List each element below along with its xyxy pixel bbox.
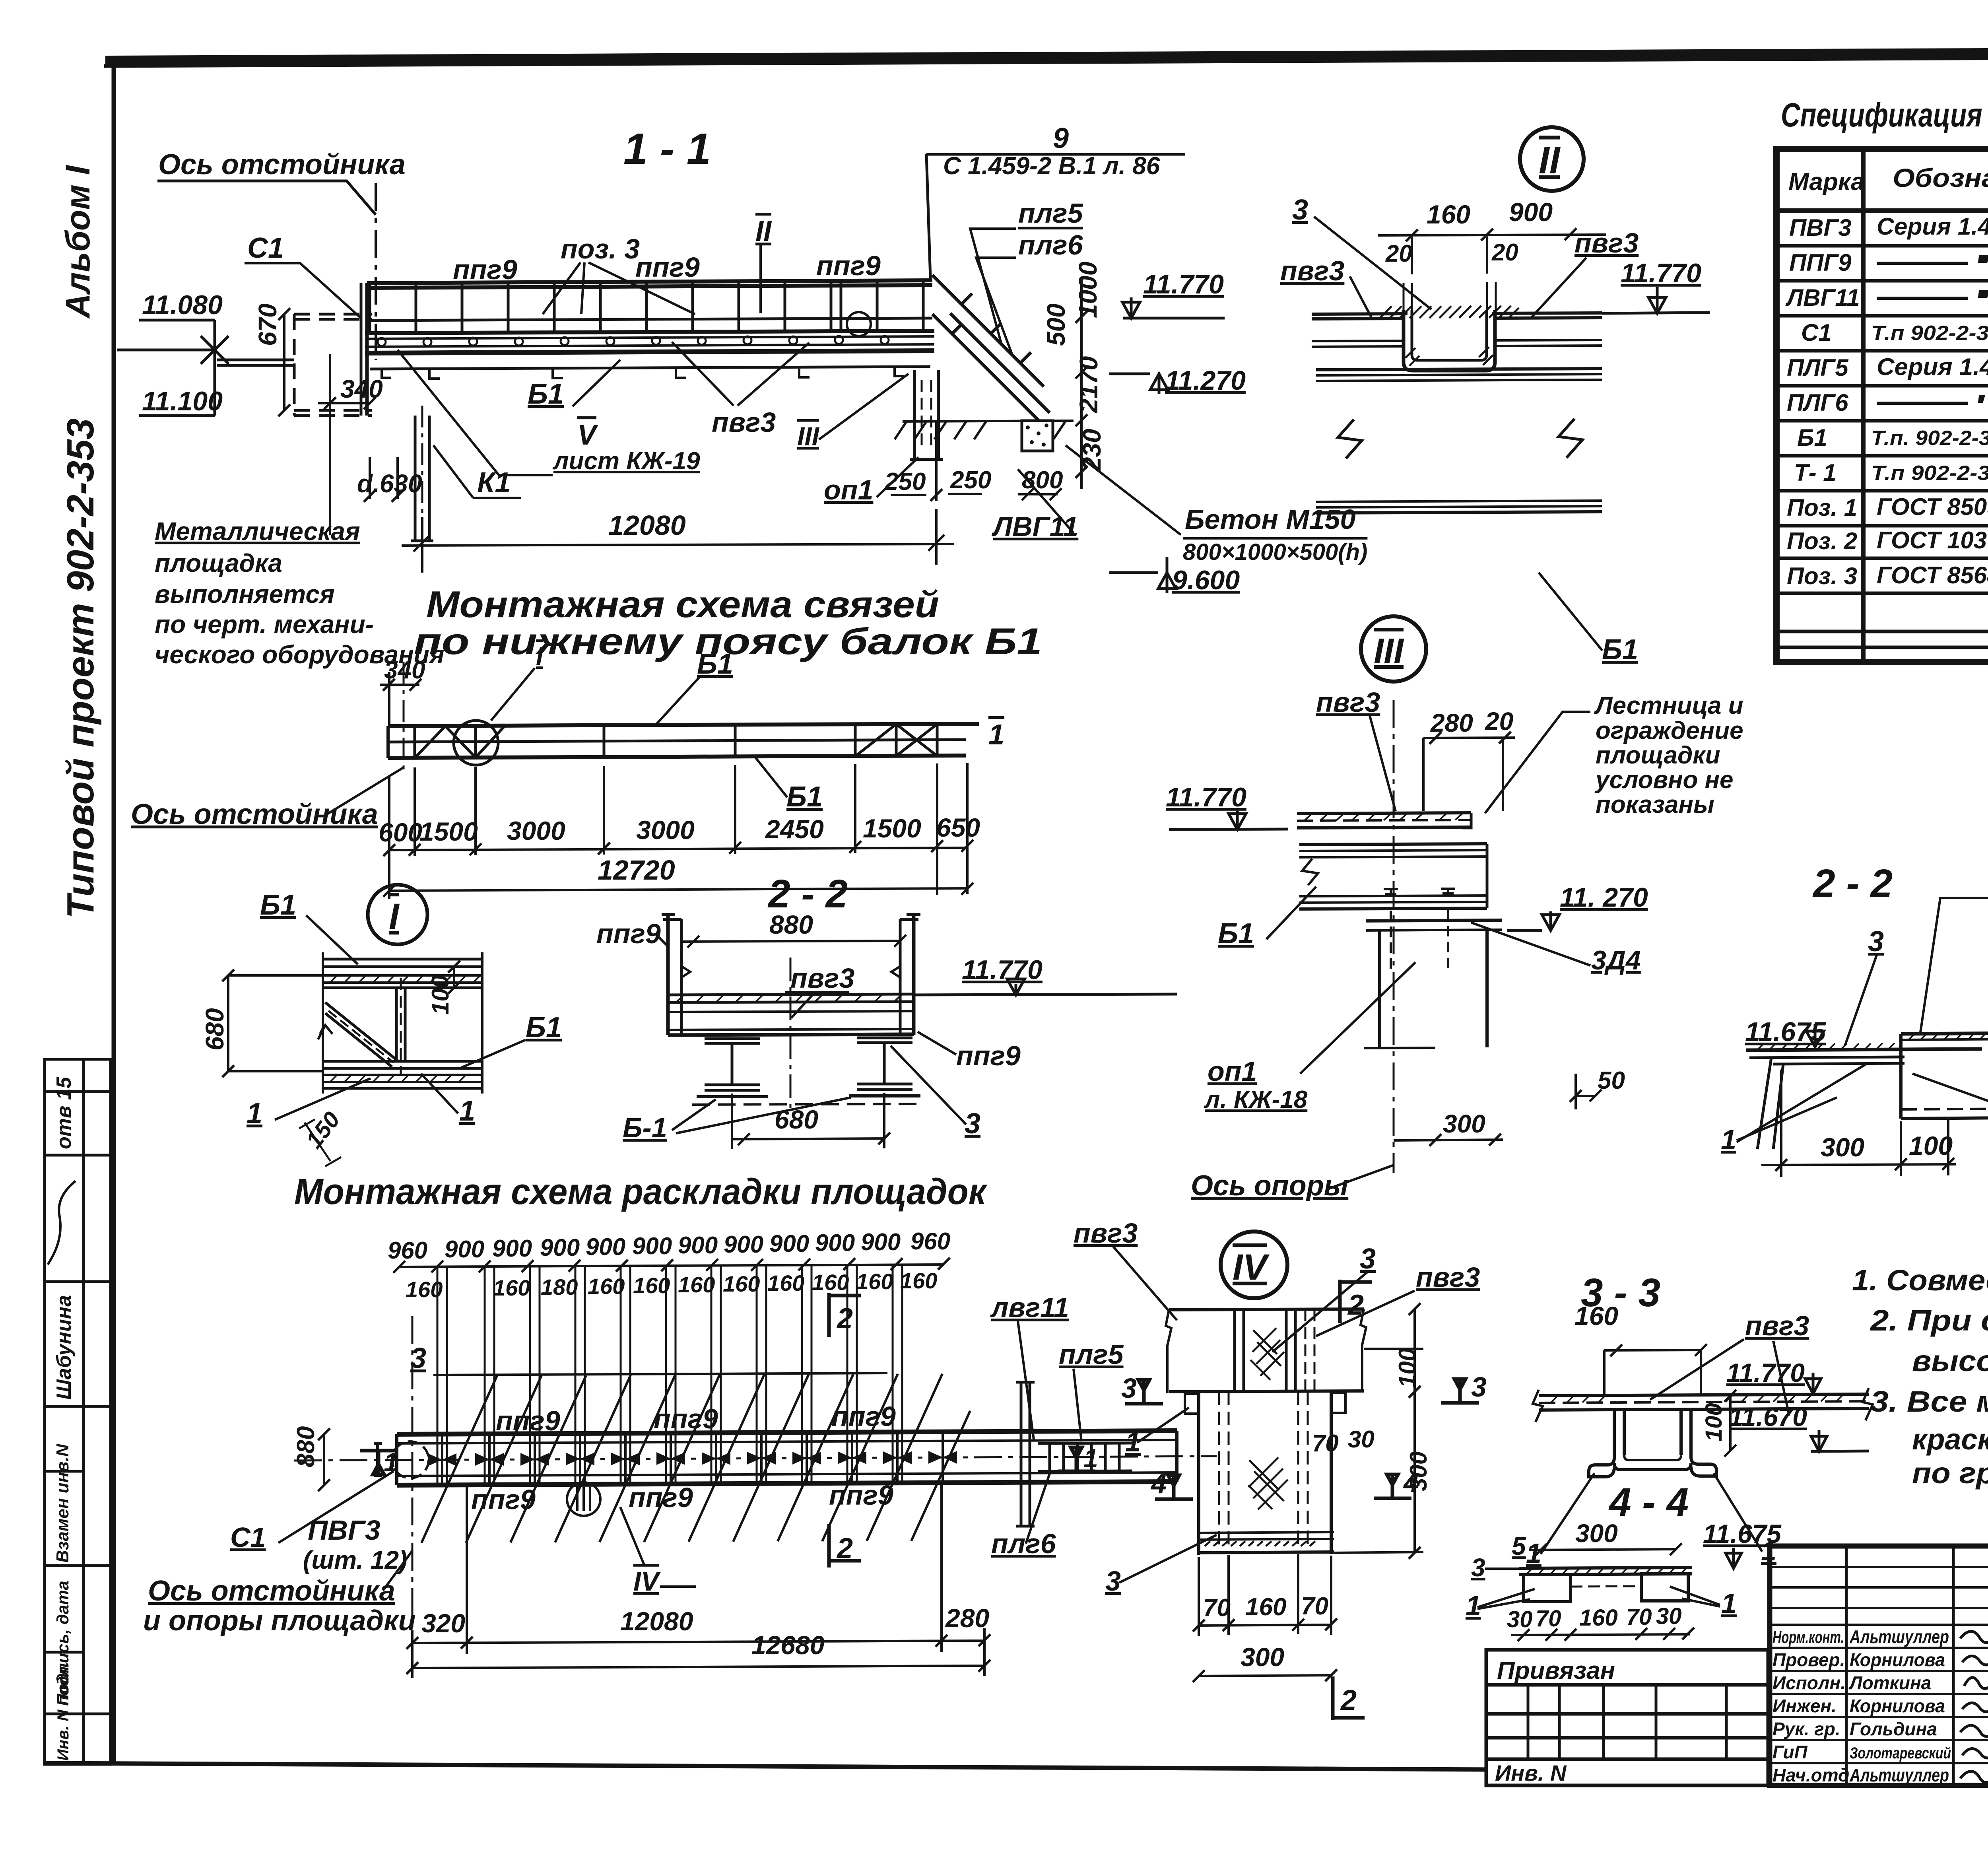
3 flags <box>1125 1380 1163 1404</box>
svg-text:11.080: 11.080 <box>142 290 223 320</box>
diagonal plate leaders <box>421 1374 970 1543</box>
svg-text:III: III <box>1374 631 1404 671</box>
svg-text:ппг9: ппг9 <box>956 1040 1021 1071</box>
left dashed metal platform <box>294 314 372 416</box>
svg-text:Типовой проект 902-2-353: Типовой проект 902-2-353 <box>59 418 102 919</box>
label rows <box>1770 1647 1988 1649</box>
svg-text:300: 300 <box>1575 1519 1618 1548</box>
svg-text:краской БТ-577 ( по ГОСТ 5631-: краской БТ-577 ( по ГОСТ 5631-79 ) за 2 … <box>1912 1423 1988 1456</box>
svg-text:900: 900 <box>861 1229 901 1255</box>
svg-text:пвг3: пвг3 <box>1074 1218 1138 1249</box>
160 row <box>406 1268 937 1302</box>
svg-text:К1: К1 <box>477 467 511 499</box>
svg-text:пвг3: пвг3 <box>1280 255 1344 286</box>
svg-text:Обозначение: Обозначение <box>1893 163 1988 192</box>
svg-text:Б1: Б1 <box>1797 424 1827 451</box>
svg-text:Норм.конт.: Норм.конт. <box>1773 1628 1844 1647</box>
svg-text:11.270: 11.270 <box>1165 365 1246 396</box>
svg-text:900: 900 <box>678 1232 718 1259</box>
svg-text:пвг3: пвг3 <box>1416 1262 1480 1293</box>
privyazan box <box>1486 1650 1768 1785</box>
svg-text:11.770: 11.770 <box>1621 258 1701 288</box>
left margin rotated captions <box>59 165 102 919</box>
svg-text:I: I <box>536 642 544 670</box>
svg-text:160: 160 <box>1574 1301 1618 1331</box>
braces right <box>855 724 896 756</box>
svg-text:пвг3: пвг3 <box>1574 227 1639 258</box>
svg-text:II: II <box>755 216 772 247</box>
svg-text:70: 70 <box>1203 1594 1231 1622</box>
svg-text:Ось отстойника: Ось отстойника <box>131 798 378 830</box>
svg-text:3000: 3000 <box>507 816 565 845</box>
svg-text:160: 160 <box>900 1268 937 1293</box>
svg-text:1. Совместно с данным см.: 1. Совместно с данным см. листы КЖ-18, 1… <box>1852 1264 1988 1297</box>
svg-text:Монтажная схема раскладки площ: Монтажная схема раскладки площадок <box>294 1171 988 1212</box>
svg-text:условно не: условно не <box>1594 766 1734 794</box>
deck band plan <box>1166 1309 1366 1393</box>
svg-text:V: V <box>577 419 599 451</box>
hat channel <box>1589 1409 1716 1477</box>
svg-text:3: 3 <box>1121 1373 1137 1404</box>
svg-text:650: 650 <box>936 813 980 842</box>
svg-text:Инжен.: Инжен. <box>1773 1696 1837 1716</box>
svg-text:160: 160 <box>723 1271 760 1296</box>
svg-text:3: 3 <box>1471 1553 1485 1582</box>
svg-text:12080: 12080 <box>608 510 686 541</box>
mid post + diagonal <box>395 988 398 1061</box>
svg-text:Альтшуллер: Альтшуллер <box>1849 1626 1949 1647</box>
svg-text:1: 1 <box>988 719 1004 751</box>
svg-text:9: 9 <box>1053 122 1069 154</box>
svg-text:ппг9: ппг9 <box>596 918 661 949</box>
svg-text:плг5: плг5 <box>1059 1339 1124 1370</box>
svg-text:900: 900 <box>445 1236 484 1263</box>
svg-text:ппг9: ппг9 <box>831 1401 896 1432</box>
hatch at joint <box>1380 306 1519 366</box>
top dim values <box>388 1228 950 1264</box>
svg-text:d.630: d.630 <box>357 469 422 498</box>
svg-text:пвг3: пвг3 <box>1316 687 1380 718</box>
svg-text:плг6: плг6 <box>1018 229 1083 260</box>
pedestal <box>1364 920 1502 1048</box>
channel walls <box>1404 310 1495 371</box>
svg-text:ЛВГ11: ЛВГ11 <box>1785 284 1860 311</box>
svg-text:Поз. 1: Поз. 1 <box>1787 494 1857 521</box>
svg-text:″: ″ <box>1978 253 1988 273</box>
svg-text:12080: 12080 <box>620 1606 693 1636</box>
band <box>397 1431 1177 1485</box>
svg-text:160: 160 <box>588 1274 625 1299</box>
svg-text:л. КЖ-18: л. КЖ-18 <box>1204 1086 1308 1113</box>
svg-text:Б1: Б1 <box>1602 634 1638 666</box>
svg-text:Привязан: Привязан <box>1497 1657 1615 1684</box>
svg-text:12680: 12680 <box>751 1630 825 1660</box>
svg-text:ГОСТ 8509 - 72*: ГОСТ 8509 - 72* <box>1877 493 1988 520</box>
right support column <box>910 370 943 459</box>
left column under platform edge <box>365 283 369 416</box>
svg-text:900: 900 <box>815 1230 855 1256</box>
svg-text:160: 160 <box>767 1270 804 1296</box>
svg-text:ПЛГ5: ПЛГ5 <box>1787 354 1849 381</box>
svg-text:Т- 1: Т- 1 <box>1794 459 1837 486</box>
svg-text:ппг9: ппг9 <box>654 1403 718 1434</box>
svg-text:ограждение: ограждение <box>1596 717 1743 744</box>
plate + clips <box>1519 1568 1692 1602</box>
svg-text:11.770: 11.770 <box>1166 782 1246 812</box>
svg-text:11.100: 11.100 <box>142 386 223 416</box>
svg-text:ппг9: ппг9 <box>816 250 881 281</box>
svg-text:ПЛГ6: ПЛГ6 <box>1787 389 1848 416</box>
svg-text:11. 270: 11. 270 <box>1560 882 1648 913</box>
deck band <box>365 331 934 333</box>
svg-text:пвг3: пвг3 <box>1745 1310 1809 1341</box>
beam <box>1299 844 1487 909</box>
svg-text:900: 900 <box>586 1233 625 1260</box>
svg-text:выполняется: выполняется <box>155 580 335 608</box>
svg-text:280: 280 <box>945 1603 989 1633</box>
box <box>1901 1033 1988 1119</box>
svg-text:Б1: Б1 <box>526 1012 562 1043</box>
svg-text:ППГ9: ППГ9 <box>1789 249 1852 276</box>
svg-text:показаны: показаны <box>1596 791 1714 818</box>
svg-text:ппг9: ппг9 <box>629 1482 693 1513</box>
svg-text:Т.п 902-2-353-КЖИ-Т1: Т.п 902-2-353-КЖИ-Т1 <box>1871 462 1988 485</box>
deck + channel <box>1312 310 1602 371</box>
svg-text:Монтажная схема связей: Монтажная схема связей <box>426 583 939 625</box>
svg-text:″: ″ <box>1978 287 1988 308</box>
svg-text:5: 5 <box>1512 1532 1526 1560</box>
outer boxes <box>1770 1546 1988 1785</box>
svg-text:Корнилова: Корнилова <box>1850 1696 1945 1716</box>
left stamp strip <box>45 1059 111 1764</box>
svg-text:плг6: плг6 <box>991 1528 1056 1559</box>
svg-text:Т.п 902-2-353-КЖИ-С1: Т.п 902-2-353-КЖИ-С1 <box>1871 322 1988 345</box>
svg-text:Инв. N подл.: Инв. N подл. <box>54 1662 72 1761</box>
svg-text:Рук. гр.: Рук. гр. <box>1773 1719 1840 1739</box>
crosshatch patch top <box>1250 1328 1284 1380</box>
svg-text:250: 250 <box>884 468 926 495</box>
svg-text:С1: С1 <box>247 232 284 264</box>
note text <box>1594 692 1743 818</box>
deck <box>1533 1388 1873 1422</box>
I beams below <box>697 1038 920 1097</box>
svg-text:300: 300 <box>1241 1642 1284 1672</box>
centerline <box>790 958 792 1111</box>
svg-text:II: II <box>1539 139 1561 182</box>
svg-text:11.770: 11.770 <box>1143 269 1224 299</box>
metal platform note <box>155 517 445 669</box>
svg-text:оп1: оп1 <box>1208 1056 1257 1087</box>
svg-text:70: 70 <box>1312 1430 1339 1457</box>
svg-text:4 - 4: 4 - 4 <box>1608 1480 1689 1525</box>
svg-text:70: 70 <box>1301 1593 1328 1620</box>
svg-text:670: 670 <box>253 303 282 346</box>
svg-text:1: 1 <box>1721 1124 1736 1155</box>
svg-text:900: 900 <box>1509 197 1553 227</box>
svg-text:2170: 2170 <box>1074 356 1103 413</box>
svg-text:900: 900 <box>769 1230 809 1257</box>
svg-text:Б1: Б1 <box>260 889 296 921</box>
plate <box>1746 1049 1982 1149</box>
anchor bolts <box>1384 889 1455 970</box>
svg-text:500: 500 <box>1042 303 1070 346</box>
svg-text:ппг9: ппг9 <box>635 252 700 283</box>
stair <box>932 275 1050 420</box>
svg-text:880: 880 <box>769 910 813 939</box>
svg-text:3Д4: 3Д4 <box>1591 945 1641 975</box>
svg-text:160: 160 <box>678 1272 715 1297</box>
svg-text:100: 100 <box>1909 1131 1953 1160</box>
svg-text:3: 3 <box>1471 1371 1487 1402</box>
svg-text:Б1: Б1 <box>786 781 823 813</box>
svg-text:Марка: Марка <box>1788 168 1864 196</box>
svg-text:ппг9: ппг9 <box>471 1484 536 1515</box>
section 2 flags <box>1340 1280 1372 1323</box>
svg-text:340: 340 <box>340 375 383 403</box>
svg-text:3: 3 <box>1105 1566 1121 1597</box>
svg-text:по черт. механи-: по черт. механи- <box>155 610 374 639</box>
svg-text:300: 300 <box>1443 1109 1485 1138</box>
svg-text:Альбом I: Альбом I <box>59 165 97 319</box>
svg-text:С 1.459-2 В.1 л. 86: С 1.459-2 В.1 л. 86 <box>943 152 1160 180</box>
crosshatch patch bottom <box>1248 1457 1288 1509</box>
svg-text:3000: 3000 <box>636 815 695 845</box>
svg-text:1: 1 <box>1721 1588 1737 1619</box>
svg-text:лист КЖ-19: лист КЖ-19 <box>552 447 700 475</box>
svg-text:180: 180 <box>541 1274 578 1299</box>
svg-text:1: 1 <box>459 1095 475 1127</box>
svg-text:2: 2 <box>1340 1684 1357 1716</box>
svg-text:160: 160 <box>812 1270 849 1295</box>
svg-text:оп1: оп1 <box>824 474 873 505</box>
T1 circle left + section flags <box>392 1441 429 1478</box>
svg-text:отв 15: отв 15 <box>52 1076 76 1149</box>
svg-text:(шт. 12): (шт. 12) <box>303 1546 407 1574</box>
braces left <box>415 726 445 758</box>
svg-text:12720: 12720 <box>598 855 675 886</box>
svg-text:960: 960 <box>388 1237 427 1264</box>
band <box>388 724 979 758</box>
svg-text:Гольдина: Гольдина <box>1850 1719 1937 1739</box>
svg-text:300: 300 <box>1821 1132 1864 1162</box>
svg-text:100: 100 <box>427 975 454 1015</box>
svg-text:Ось отстойника: Ось отстойника <box>148 1575 395 1607</box>
svg-text:20: 20 <box>1385 240 1412 267</box>
svg-text:ЛВГ11: ЛВГ11 <box>991 511 1078 542</box>
svg-text:680: 680 <box>775 1105 818 1134</box>
svg-text:4: 4 <box>1150 1468 1167 1499</box>
svg-text:пвг3: пвг3 <box>712 407 776 438</box>
svg-text:900: 900 <box>724 1231 763 1258</box>
detail I circle <box>454 721 498 765</box>
svg-text:1000: 1000 <box>1074 262 1102 318</box>
svg-text:Б1: Б1 <box>1218 918 1254 950</box>
svg-text:лвг11: лвг11 <box>990 1292 1069 1323</box>
walls <box>662 915 920 1035</box>
svg-text:Ось опоры: Ось опоры <box>1191 1170 1348 1202</box>
svg-text:2 - 2: 2 - 2 <box>1812 861 1893 906</box>
svg-text:960: 960 <box>911 1228 950 1255</box>
svg-text:III: III <box>797 422 820 451</box>
svg-text:900: 900 <box>540 1234 580 1261</box>
ladder right <box>1038 1443 1132 1471</box>
svg-text:Б1: Б1 <box>528 378 564 410</box>
dimension chain <box>379 813 980 847</box>
svg-text:160: 160 <box>1427 200 1470 229</box>
svg-text:1: 1 <box>247 1097 262 1129</box>
svg-text:IV: IV <box>633 1566 661 1597</box>
section 2 flags <box>829 1293 861 1337</box>
svg-text:ГиП: ГиП <box>1773 1742 1808 1762</box>
svg-text:1 - 1: 1 - 1 <box>623 124 711 173</box>
4 flags <box>1155 1475 1193 1499</box>
svg-text:площадки: площадки <box>1596 742 1720 769</box>
svg-text:800×1000×500(h): 800×1000×500(h) <box>1183 539 1367 565</box>
hangers below beam <box>382 368 904 379</box>
svg-text:ГОСТ 8568 - 77: ГОСТ 8568 - 77 <box>1877 562 1988 589</box>
svg-text:160: 160 <box>493 1275 530 1300</box>
svg-text:900: 900 <box>492 1235 532 1262</box>
svg-text:Лестница и: Лестница и <box>1594 692 1743 719</box>
band divisions + arrows <box>442 1432 943 1485</box>
svg-text:30: 30 <box>1348 1426 1375 1453</box>
svg-text:30: 30 <box>1656 1603 1682 1629</box>
svg-text:2: 2 <box>836 1303 853 1334</box>
svg-text:160: 160 <box>1579 1605 1618 1631</box>
svg-text:площадка: площадка <box>155 549 282 577</box>
svg-text:20: 20 <box>1485 707 1513 736</box>
ground hatch + block <box>895 421 1074 439</box>
signature table columns <box>1845 1546 1848 1785</box>
svg-text:Поз. 3: Поз. 3 <box>1787 563 1857 589</box>
III circle bottom <box>567 1482 600 1516</box>
svg-text:3: 3 <box>1868 926 1884 958</box>
svg-text:2450: 2450 <box>765 814 824 844</box>
svg-text:Поз. 2: Поз. 2 <box>1787 528 1857 554</box>
svg-text:пвг3: пвг3 <box>790 963 854 994</box>
svg-text:ПВГ3: ПВГ3 <box>308 1515 381 1546</box>
svg-text:Альтшуллер: Альтшуллер <box>1849 1765 1949 1785</box>
svg-text:Серия 1.459-2 в. 4: Серия 1.459-2 в. 4 <box>1877 213 1988 240</box>
deck <box>668 994 914 1035</box>
svg-text:9.600: 9.600 <box>1172 565 1240 595</box>
svg-text:I: I <box>389 896 400 937</box>
svg-text:70: 70 <box>1626 1604 1652 1630</box>
svg-text:680: 680 <box>200 1008 229 1051</box>
thin rows <box>1770 1566 1988 1568</box>
svg-text:11.770: 11.770 <box>962 955 1043 985</box>
svg-text:поз. 3: поз. 3 <box>561 233 640 264</box>
svg-text:100: 100 <box>1701 1403 1727 1441</box>
svg-text:Исполн.: Исполн. <box>1773 1672 1846 1693</box>
svg-text:Серия 1.459-2 в. 4: Серия 1.459-2 в. 4 <box>1877 354 1988 380</box>
svg-text:2: 2 <box>836 1533 853 1564</box>
svg-text:Инв. N: Инв. N <box>1495 1760 1567 1785</box>
svg-text:Шабунина: Шабунина <box>52 1295 76 1400</box>
svg-text:С1: С1 <box>230 1522 266 1553</box>
svg-text:280: 280 <box>1430 709 1473 737</box>
svg-text:Провер.: Провер. <box>1773 1649 1845 1670</box>
svg-text:1500: 1500 <box>419 817 478 846</box>
svg-text:1500: 1500 <box>863 814 921 843</box>
svg-text:70: 70 <box>1536 1606 1561 1632</box>
signature rows text <box>1773 1626 1951 1785</box>
beam below <box>1316 369 1602 513</box>
centerline <box>403 662 405 773</box>
svg-text:высоту сварного шва принять: высоту сварного шва принять 6 мм. <box>1912 1344 1988 1377</box>
svg-text:Взамен инв.N: Взамен инв.N <box>53 1443 72 1563</box>
svg-text:100: 100 <box>1394 1348 1421 1388</box>
svg-text:880: 880 <box>292 1426 320 1467</box>
svg-text:160: 160 <box>1245 1593 1286 1621</box>
panel top band <box>323 952 482 1094</box>
svg-text:3: 3 <box>1360 1243 1376 1275</box>
svg-text:Ось отстойника: Ось отстойника <box>158 149 406 181</box>
svg-text:плг5: плг5 <box>1018 198 1083 229</box>
vertical stair element crossing band <box>1016 1382 1035 1526</box>
deck <box>1297 813 1471 828</box>
svg-text:и опоры площадки: и опоры площадки <box>143 1605 416 1637</box>
svg-text:320: 320 <box>421 1608 465 1638</box>
svg-text:900: 900 <box>632 1233 672 1259</box>
svg-text:11.670: 11.670 <box>1729 1402 1807 1432</box>
svg-text:по грунтовке ГФ-020.: по грунтовке ГФ-020. <box>1912 1457 1988 1490</box>
railing: top rail, mid rail, posts <box>367 280 932 283</box>
svg-text:Б1: Б1 <box>697 648 733 680</box>
centerline <box>294 1456 1217 1461</box>
svg-text:160: 160 <box>633 1273 670 1298</box>
svg-text:20: 20 <box>1491 239 1518 266</box>
svg-text:Т.п. 902-2-353- КЖИ-Б1: Т.п. 902-2-353- КЖИ-Б1 <box>1871 427 1988 450</box>
svg-text:Лоткина: Лоткина <box>1848 1672 1931 1693</box>
svg-text:3: 3 <box>1292 194 1308 226</box>
signature squiggles <box>1960 1632 1988 1783</box>
svg-text:Корнилова: Корнилова <box>1850 1649 1945 1670</box>
svg-text:Нач.отд.: Нач.отд. <box>1773 1765 1854 1785</box>
svg-text:С1: С1 <box>1801 319 1832 346</box>
svg-text:160: 160 <box>856 1269 893 1294</box>
column below <box>1185 1391 1345 1555</box>
svg-text:2. При сварке металлоконстру: 2. При сварке металлоконструкций <box>1870 1304 1988 1337</box>
vertical projection line pairs <box>437 1265 902 1485</box>
svg-text:3. Все металлоконструкции о: 3. Все металлоконструкции окрасить <box>1870 1385 1988 1418</box>
svg-text:250: 250 <box>950 466 991 494</box>
svg-text:Золотаревский: Золотаревский <box>1850 1744 1951 1762</box>
svg-text:ПВГ3: ПВГ3 <box>1789 214 1852 241</box>
svg-text:Спецификация элементов к монт: Спецификация элементов к монтажным схема… <box>1781 96 1988 134</box>
svg-text:300: 300 <box>1405 1451 1432 1491</box>
svg-text:ппг9: ппг9 <box>496 1405 560 1436</box>
svg-text:ГОСТ 103 - 76: ГОСТ 103 - 76 <box>1877 527 1988 554</box>
svg-text:Б-1: Б-1 <box>623 1112 667 1143</box>
svg-text:ппг9: ппг9 <box>829 1480 893 1511</box>
svg-text:11.770: 11.770 <box>1726 1358 1805 1387</box>
svg-text:IV: IV <box>1233 1247 1270 1288</box>
